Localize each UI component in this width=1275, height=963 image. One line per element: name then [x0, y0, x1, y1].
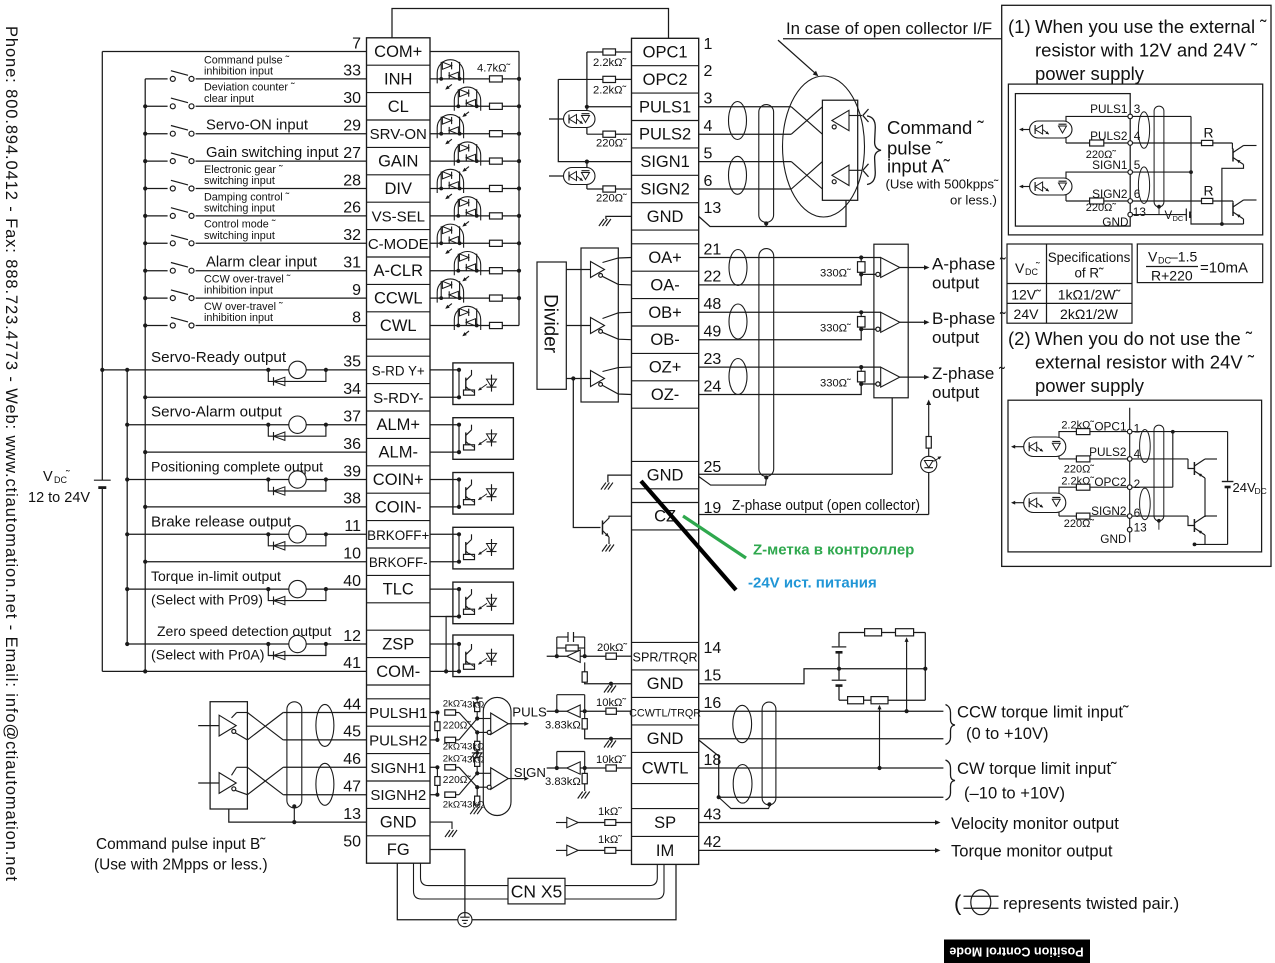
svg-text:DIV: DIV [384, 180, 412, 198]
panel2 pin line [1129, 408, 1131, 543]
rail OPC2 to SIGN1 [558, 79, 587, 161]
wiper CWTL [879, 708, 881, 769]
wire COM+ to 4.7k rail [430, 51, 519, 53]
optocoupler input LED pair [430, 215, 490, 217]
input row Deviation counter ˜ [145, 105, 366, 107]
optocoupler output photo-transistor [453, 363, 514, 405]
shield panel2 [1154, 425, 1164, 521]
svg-text:1: 1 [704, 36, 713, 53]
cable shield input B [287, 702, 302, 808]
resistor 220 PULS2 [587, 133, 603, 135]
svg-text:PULS1: PULS1 [1090, 102, 1127, 116]
svg-text:13: 13 [1134, 521, 1148, 535]
svg-text:PULS1: PULS1 [639, 98, 691, 116]
svg-text:22: 22 [704, 269, 722, 286]
Z mark annotation line (green) [683, 516, 746, 558]
svg-text:Servo-ON input: Servo-ON input [206, 118, 308, 134]
ellipse open collector I/F [783, 76, 865, 217]
output contact: diode + coil [266, 423, 270, 427]
wire FG to earth [430, 850, 465, 913]
svg-text:5: 5 [704, 145, 713, 162]
svg-text:external resistor with 24V ˜: external resistor with 24V ˜ [1035, 352, 1255, 373]
svg-text:26: 26 [343, 200, 361, 217]
svg-text:220Ω˜: 220Ω˜ [1064, 463, 1095, 475]
svg-text:OA+: OA+ [648, 249, 681, 267]
svg-text:4.7kΩ˜: 4.7kΩ˜ [477, 63, 511, 75]
switch contact [168, 239, 196, 248]
table Vdc specifications [1007, 244, 1132, 323]
svg-text:Zero speed detection output: Zero speed detection output [157, 623, 331, 639]
panel1 circuit box [1008, 84, 1262, 235]
optocoupler panel2 OPC1 [1024, 437, 1066, 457]
svg-text:COIN+: COIN+ [373, 471, 424, 489]
pin GND panel1 [1128, 212, 1133, 217]
-24V annotation line (black thick) [641, 481, 736, 590]
pin SIGN1 panel1 [1128, 170, 1133, 175]
svg-text:OZ-: OZ- [651, 386, 679, 404]
svg-text:SIGN1: SIGN1 [1092, 158, 1127, 172]
svg-text:Torque monitor output: Torque monitor output [951, 842, 1113, 861]
switch contact [168, 184, 196, 193]
svg-text:220Ω˜: 220Ω˜ [1064, 518, 1095, 530]
svg-text:OA-: OA- [650, 276, 679, 294]
svg-text:220Ω˜: 220Ω˜ [596, 138, 627, 150]
pin SIGN2 panel2 [1127, 514, 1132, 519]
wire GND15 to pot supply [699, 669, 926, 684]
svg-text:Gain switching input: Gain switching input [206, 145, 338, 161]
svg-text:2kΩ1/2W: 2kΩ1/2W [1060, 306, 1119, 322]
output contact: diode + coil [266, 532, 270, 536]
transistor CZ open collector [573, 379, 600, 528]
brace command pulse input A [867, 116, 881, 185]
wires panel1 right [1133, 115, 1192, 117]
wire row y=189.0 [699, 188, 792, 190]
svg-text:input A˜: input A˜ [887, 156, 951, 177]
svg-text:(2): (2) [1008, 328, 1031, 349]
svg-text:-24V ист. питания: -24V ист. питания [748, 575, 877, 592]
pin PULS2 panel1 [1128, 141, 1133, 146]
svg-text:GND: GND [647, 675, 684, 693]
wire receiver box to GND [891, 398, 893, 474]
svg-text:INH: INH [384, 70, 412, 88]
twisted pair OA [729, 250, 747, 286]
svg-text:DC: DC [1173, 214, 1184, 223]
wires panel2 right [1132, 431, 1228, 433]
svg-text:˜: ˜ [65, 469, 70, 481]
potentiometer upper [839, 632, 865, 634]
svg-text:GND: GND [1100, 532, 1126, 546]
svg-text:43: 43 [704, 806, 722, 823]
svg-text:or less.): or less.) [950, 193, 997, 208]
svg-text:BRKOFF-: BRKOFF- [369, 555, 428, 570]
svg-text:46: 46 [343, 751, 361, 768]
svg-text:Velocity monitor output: Velocity monitor output [951, 814, 1119, 833]
svg-text:330Ω˜: 330Ω˜ [820, 323, 851, 335]
rail 4.7k pull-up [518, 52, 520, 326]
svg-text:Deviation counter ˜: Deviation counter ˜ [204, 82, 295, 94]
input row Gain switching input [145, 160, 366, 162]
wire GND13 shield return [699, 200, 846, 226]
resistor 4.7k [490, 185, 503, 191]
capsule around PULS/SIGN receivers [483, 697, 511, 815]
twisted pair SIGN1/2 [729, 156, 747, 194]
svg-text:A-phase ˜: A-phase ˜ [932, 254, 1006, 273]
svg-text:12V˜: 12V˜ [1011, 287, 1041, 303]
output row Brake release output [127, 533, 366, 535]
svg-text:CWTL: CWTL [642, 760, 689, 778]
twisted pair OZ [729, 359, 747, 395]
svg-text:CW torque limit input˜: CW torque limit input˜ [957, 759, 1117, 778]
svg-text:10kΩ˜: 10kΩ˜ [596, 697, 626, 709]
svg-text:29: 29 [343, 118, 361, 135]
wire IM monitor [699, 849, 937, 851]
svg-text:Brake release output: Brake release output [151, 513, 292, 530]
svg-text:36: 36 [343, 436, 361, 453]
Position Control Mode tag [944, 940, 1090, 963]
svg-text:(Use with 2Mpps or less.): (Use with 2Mpps or less.) [94, 857, 268, 874]
earth ground symbol [458, 913, 472, 927]
svg-text:PULSH2: PULSH2 [369, 732, 427, 749]
svg-text:220Ω˜: 220Ω˜ [596, 193, 627, 205]
svg-text:Command pulse ˜: Command pulse ˜ [204, 54, 290, 66]
optocoupler input LED pair [430, 105, 490, 107]
svg-text:CN X5: CN X5 [511, 882, 563, 902]
optocoupler output photo-transistor [453, 582, 514, 624]
output row Servo-Alarm output [127, 424, 366, 426]
svg-text:inhibition input: inhibition input [204, 66, 273, 78]
svg-text:PULS2: PULS2 [1089, 445, 1126, 459]
svg-text:CWL: CWL [380, 317, 417, 335]
receiver B-phase ˜ [699, 311, 881, 313]
optocoupler input LED pair [430, 297, 490, 299]
svg-text:PULS: PULS [512, 705, 547, 720]
svg-text:44: 44 [343, 696, 361, 713]
line driver triangle [591, 318, 605, 334]
svg-text:OZ+: OZ+ [649, 359, 682, 377]
wire GND13 to receiver box [366, 821, 368, 823]
wire COM+ row [102, 51, 366, 53]
svg-text:6: 6 [704, 173, 713, 190]
svg-text:12: 12 [343, 628, 361, 645]
pin PULS2 panel2 [1127, 457, 1132, 462]
optocoupler input LED pair [430, 160, 490, 162]
svg-text:COM+: COM+ [374, 43, 422, 61]
svg-text:GND: GND [647, 208, 684, 226]
svg-text:of R˜: of R˜ [1074, 266, 1104, 281]
svg-text:5: 5 [1134, 158, 1141, 172]
svg-text:TLC: TLC [383, 581, 414, 599]
line receiver command pulse input B internal [430, 766, 437, 768]
svg-text:Position Control Mode: Position Control Mode [949, 945, 1083, 959]
svg-text:10: 10 [343, 546, 361, 563]
svg-text:CCW over-travel ˜: CCW over-travel ˜ [204, 274, 291, 286]
svg-text:3: 3 [1134, 102, 1141, 116]
op-amp [567, 650, 580, 662]
svg-text:OB-: OB- [650, 331, 679, 349]
svg-text:13: 13 [704, 200, 722, 217]
external driver box input B [210, 702, 247, 809]
svg-text:1: 1 [1134, 421, 1141, 435]
svg-text:output: output [932, 273, 980, 292]
svg-text:COM-: COM- [376, 663, 420, 681]
svg-text:9: 9 [352, 282, 361, 299]
svg-text:Specifications: Specifications [1048, 250, 1131, 265]
svg-text:23: 23 [704, 351, 722, 368]
optocoupler input LED pair [430, 325, 490, 327]
op-amp [567, 705, 580, 717]
svg-text:V: V [1015, 260, 1025, 276]
wire row y=106.8 [699, 106, 792, 108]
svg-text:GND: GND [1102, 215, 1128, 229]
bus output collector + [126, 370, 128, 644]
svg-text:27: 27 [343, 145, 361, 162]
svg-text:1kΩ˜: 1kΩ˜ [598, 834, 622, 846]
output contact: diode + coil [266, 368, 270, 372]
wire GND13 left-block right stub to ground [430, 822, 452, 829]
svg-text:50: 50 [343, 833, 361, 850]
svg-text:COIN-: COIN- [375, 498, 422, 516]
svg-text:10kΩ˜: 10kΩ˜ [596, 754, 626, 766]
svg-text:ALM-: ALM- [379, 444, 418, 462]
optocoupler panel1 SIGN [1030, 178, 1072, 195]
brace CW [946, 760, 956, 800]
svg-text:SIGNH1: SIGNH1 [370, 760, 426, 777]
svg-text:SIGN: SIGN [514, 765, 546, 780]
receiver box [874, 244, 908, 398]
svg-text:32: 32 [343, 227, 361, 244]
resistor 4.7k [490, 322, 503, 328]
wiper CCWTL [906, 641, 908, 712]
shield panel1 [1154, 106, 1164, 207]
svg-text:Command pulse input B˜: Command pulse input B˜ [96, 836, 266, 853]
svg-text:2: 2 [704, 63, 713, 80]
rail OPC1 to PULS1 [586, 52, 588, 107]
svg-text:(Use with 500kpps˜: (Use with 500kpps˜ [886, 177, 999, 192]
svg-text:In case of open collector I/F: In case of open collector I/F [786, 19, 992, 38]
svg-text:When you do not use the ˜: When you do not use the ˜ [1035, 328, 1253, 349]
optocoupler panel1 PULS [1030, 121, 1072, 138]
info panel outer box [1002, 5, 1271, 566]
svg-text:3.83kΩ: 3.83kΩ [545, 720, 581, 732]
line driver box [581, 248, 618, 402]
twisted pair SIGNH [316, 763, 334, 805]
svg-text:SRV-ON: SRV-ON [370, 126, 427, 143]
pin PULS1 panel1 [1128, 114, 1133, 119]
pin OPC1 panel2 [1127, 429, 1132, 434]
svg-text:12 to 24V: 12 to 24V [28, 490, 90, 506]
svg-text:GND: GND [647, 730, 684, 748]
svg-text:power supply: power supply [1035, 63, 1145, 84]
svg-text:48: 48 [704, 296, 722, 313]
svg-text:SPR/TRQR: SPR/TRQR [633, 651, 698, 665]
svg-text:1kΩ˜: 1kΩ˜ [598, 806, 622, 818]
connector block CN X5 left column [367, 38, 431, 863]
svg-text:OPC1: OPC1 [643, 44, 688, 62]
svg-text:B-phase ˜: B-phase ˜ [932, 309, 1006, 328]
svg-text:output: output [932, 328, 980, 347]
wire GND25 row [699, 473, 893, 475]
svg-text:SIGNH2: SIGNH2 [370, 787, 426, 804]
receiver Z-phase ˜ [699, 366, 881, 368]
output contact: diode + coil [266, 587, 270, 591]
svg-text:Divider: Divider [540, 294, 561, 354]
transistor Q2 panel2 [1193, 519, 1195, 532]
svg-text:14: 14 [704, 640, 722, 657]
formula box [1137, 244, 1262, 283]
optocoupler output photo-transistor [453, 635, 514, 677]
output row Servo-Ready output [102, 369, 366, 371]
optocoupler input LED pair [430, 270, 490, 272]
brace CCW [946, 705, 956, 745]
svg-text:V: V [1165, 210, 1173, 222]
svg-text:C-MODE: C-MODE [368, 236, 429, 253]
svg-text:13: 13 [1133, 205, 1147, 219]
potentiometer lower [839, 699, 848, 701]
resistor 4.7k [490, 158, 503, 164]
input row CW over-travel ˜ [145, 325, 366, 327]
battery 24VDC panel2 [1227, 432, 1229, 481]
svg-text:34: 34 [343, 381, 361, 398]
resistor 4.7k [490, 131, 503, 137]
svg-text:45: 45 [343, 724, 361, 741]
svg-text:13: 13 [343, 806, 361, 823]
wire GND13 to signal ground [606, 216, 632, 219]
external inverter driver [791, 107, 822, 134]
cable shield torque [762, 702, 776, 805]
receiver A-phase ˜ [699, 257, 881, 259]
svg-text:ALM+: ALM+ [376, 416, 420, 434]
switch contact [168, 321, 196, 330]
optocoupler input LED pair [430, 242, 490, 244]
svg-text:2: 2 [1134, 477, 1141, 491]
svg-text:R+220: R+220 [1151, 268, 1193, 284]
svg-text:25: 25 [704, 459, 722, 476]
external driver box [822, 100, 857, 200]
svg-text:GND: GND [647, 467, 684, 485]
Divider block [537, 262, 566, 389]
connector block CN X5 middle column [632, 38, 699, 864]
input row Command pulse ˜ [145, 78, 366, 80]
svg-text:OPC2: OPC2 [643, 71, 688, 89]
svg-text:(–10 to +10V): (–10 to +10V) [964, 784, 1065, 803]
pin SIGN2 panel1 [1128, 199, 1133, 204]
resistor 2.2k OPC1 [587, 51, 603, 53]
optocoupler output photo-transistor [453, 418, 514, 460]
resistor 2.2k OPC2 [558, 78, 603, 80]
output row Positioning complete output [127, 479, 366, 481]
resistor 4.7k [490, 103, 503, 109]
monitor buffer [567, 817, 578, 827]
svg-text:35: 35 [343, 354, 361, 371]
wire TLC return to COM- [446, 617, 459, 672]
svg-text:A-CLR: A-CLR [373, 262, 423, 280]
svg-text:3.83kΩ: 3.83kΩ [545, 776, 581, 788]
resistor to GND15 [584, 662, 586, 671]
optocoupler panel2 OPC2 [1024, 493, 1066, 513]
svg-text:2.2kΩ˜: 2.2kΩ˜ [593, 85, 627, 97]
svg-text:2.2kΩ˜: 2.2kΩ˜ [593, 57, 627, 69]
svg-text:220Ω˜: 220Ω˜ [443, 775, 472, 786]
svg-text:Electronic gear ˜: Electronic gear ˜ [204, 164, 283, 176]
twisted pair PULSH [316, 704, 334, 746]
line driver triangle [591, 262, 605, 278]
svg-text:S-RD Y+: S-RD Y+ [372, 363, 425, 378]
svg-text:Positioning complete output: Positioning complete output [151, 459, 323, 475]
svg-text:33: 33 [343, 63, 361, 80]
svg-text:4: 4 [704, 118, 713, 135]
switch contact [168, 211, 196, 220]
optocoupler input LED pair [430, 133, 490, 135]
battery VDC [94, 479, 111, 481]
resistor 220 SIGN2 [587, 188, 603, 190]
switch contact [168, 102, 196, 111]
svg-text:GND: GND [380, 814, 417, 832]
svg-text:(Select with Pr09): (Select with Pr09) [151, 593, 263, 609]
svg-text:49: 49 [704, 324, 722, 341]
svg-text:24: 24 [704, 378, 722, 395]
svg-text:Damping control ˜: Damping control ˜ [204, 191, 290, 203]
resistor 3.83k CWTL [584, 768, 586, 773]
monitor buffer [567, 845, 578, 855]
svg-text:28: 28 [343, 172, 361, 189]
svg-text:CW over-travel ˜: CW over-travel ˜ [204, 301, 283, 313]
switch contact [168, 74, 196, 83]
external inverter driver [791, 162, 822, 189]
transistor Q1 panel2 [1193, 462, 1195, 475]
switch contact [168, 129, 196, 138]
cable shield ABZ [759, 249, 774, 477]
svg-text:8: 8 [352, 309, 361, 326]
svg-text:(0 to +10V): (0 to +10V) [966, 724, 1049, 743]
svg-text:220Ω˜: 220Ω˜ [443, 720, 472, 731]
svg-text:GAIN: GAIN [378, 153, 418, 171]
svg-text:˜: ˜ [1035, 261, 1040, 273]
switch contact [168, 157, 196, 166]
wire row y=161.6 [699, 161, 792, 163]
wire COM- row [102, 670, 366, 672]
switch contact [168, 294, 196, 303]
svg-text:OB+: OB+ [648, 304, 681, 322]
optocoupler output photo-transistor [453, 473, 514, 515]
wire CZ row [699, 514, 929, 516]
svg-text:SIGN1: SIGN1 [640, 153, 690, 171]
wire SP monitor [699, 822, 937, 824]
svg-text:S-RDY-: S-RDY- [373, 390, 423, 407]
svg-text:Command ˜: Command ˜ [887, 117, 984, 138]
svg-text:–1.5: –1.5 [1170, 249, 1197, 265]
svg-text:DC: DC [1255, 486, 1267, 496]
svg-text:Z-метка в контроллер: Z-метка в контроллер [753, 542, 914, 559]
svg-text:Alarm clear input: Alarm clear input [206, 255, 317, 271]
output contact: diode + coil [266, 477, 270, 481]
svg-text:20kΩ˜: 20kΩ˜ [597, 642, 627, 654]
svg-text:Torque in-limit output: Torque in-limit output [151, 568, 281, 584]
switch contact [168, 266, 196, 275]
svg-text:16: 16 [704, 695, 722, 712]
svg-text:ZSP: ZSP [382, 636, 414, 654]
svg-text:IM: IM [656, 842, 674, 860]
svg-text:R: R [1204, 126, 1214, 141]
input row Control mode ˜ [145, 242, 366, 244]
wire row y=134.2 [699, 133, 792, 135]
svg-text:6: 6 [1134, 187, 1141, 201]
svg-text:Z-phase output (open collector: Z-phase output (open collector) [732, 498, 920, 514]
output contact: diode + coil [266, 642, 270, 646]
svg-text:38: 38 [343, 491, 361, 508]
bus input common [144, 79, 146, 672]
wire GND jog lower [699, 740, 944, 797]
svg-text:switching input: switching input [204, 230, 275, 242]
